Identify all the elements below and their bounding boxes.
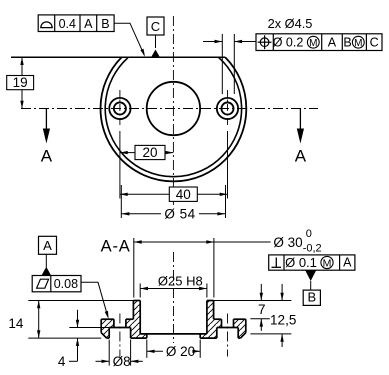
vertical centerline top view: [172, 16, 174, 205]
dimension 20 (basic): [120, 152, 173, 154]
svg-text:Ø25 H8: Ø25 H8: [158, 273, 203, 288]
svg-text:C: C: [151, 19, 160, 34]
bore D20 walls: [146, 334, 148, 338]
D4.5 dim arrows: [203, 41, 222, 43]
dimension 4 arrows: [77, 310, 79, 328]
svg-text:40: 40: [176, 187, 191, 202]
svg-text:M: M: [354, 38, 362, 49]
hatched right flange piece: [234, 319, 246, 338]
svg-text:Ø 54: Ø 54: [164, 207, 195, 222]
hub top extension right (for 7 / 12,5): [214, 300, 292, 302]
bore D25 walls: [139, 301, 141, 334]
step D25/D20: [140, 333, 207, 335]
position symbol: [260, 38, 269, 47]
svg-text:2x Ø4.5: 2x Ø4.5: [268, 16, 313, 31]
perpendicularity symbol: [275, 258, 277, 268]
counterbore step extension (for 4): [69, 327, 109, 329]
svg-text:Ø 0.1: Ø 0.1: [285, 255, 317, 270]
dimension D30 with tolerance: [133, 241, 213, 243]
svg-text:A: A: [328, 36, 337, 50]
flange top extension right (for 7): [250, 318, 269, 320]
svg-text:20: 20: [142, 145, 157, 160]
dimension 7: [260, 284, 262, 301]
svg-text:A: A: [84, 17, 93, 31]
svg-text:A-A: A-A: [101, 238, 131, 256]
svg-text:Ø 0.2: Ø 0.2: [273, 36, 304, 50]
right hole centerline (section): [227, 314, 229, 357]
hatched right hub/bore piece: [200, 301, 221, 339]
svg-text:Ø8: Ø8: [113, 354, 131, 369]
svg-text:A: A: [295, 147, 307, 166]
dimension D54 extension lines: [120, 185, 122, 218]
section arrow right: [299, 109, 301, 130]
D20 extension lines: [146, 340, 148, 358]
right counterbore step + walls: [217, 327, 238, 329]
svg-text:-0,2: -0,2: [303, 242, 322, 254]
profile FCF leader: [114, 23, 144, 55]
flatness symbol: [37, 279, 49, 288]
svg-text:A: A: [43, 238, 52, 253]
svg-text:M: M: [323, 257, 332, 269]
hub top extension line left (for 14): [28, 300, 140, 302]
svg-text:B: B: [343, 36, 351, 50]
left hole counterbore D8: [109, 98, 130, 119]
svg-text:C: C: [370, 36, 379, 50]
svg-text:14: 14: [8, 316, 24, 331]
svg-text:Ø 20: Ø 20: [166, 344, 195, 359]
section outline: left edge + chamfer: [100, 319, 102, 333]
perpendicularity FCF (0.1 M | A): [269, 255, 355, 270]
dimension D54: [122, 213, 161, 215]
step extension right (for 12,5): [250, 333, 291, 335]
flat top edge + left extension for dim 19: [11, 56, 225, 58]
bottom extension line left (for 14): [28, 337, 101, 339]
left hole vertical centerline: [119, 90, 121, 128]
outer circle D54 (flat-topped): [100, 57, 246, 181]
right hole vertical centerline: [227, 90, 229, 128]
right hole D4.5: [221, 102, 233, 114]
datum A flag: [39, 236, 57, 254]
flatness FCF (0.08): [32, 276, 81, 292]
D30 extension lines: [133, 238, 135, 298]
section arrow left: [45, 109, 47, 130]
dimension 19 line: [21, 57, 23, 108]
profile-of-surface FCF (0.4 A B): [38, 15, 114, 32]
D8 extension lines: [108, 340, 110, 366]
svg-text:0.08: 0.08: [54, 277, 78, 291]
flatness FCF leader: [81, 282, 108, 317]
dimension 14: [38, 301, 40, 339]
svg-text:B: B: [101, 17, 109, 31]
svg-text:A: A: [343, 256, 352, 270]
flange top surfaces: [101, 318, 114, 320]
profile symbol: [40, 22, 53, 28]
left counterbore step + walls: [109, 327, 130, 329]
svg-text:Ø 30: Ø 30: [273, 235, 302, 250]
horizontal centerline / section cutting line A-A: [21, 108, 318, 110]
section vertical centerline: [173, 252, 175, 343]
dimension D25 H8: [140, 288, 207, 290]
svg-text:0.4: 0.4: [59, 17, 76, 31]
hatched left flange piece: [101, 319, 114, 338]
svg-text:A: A: [41, 147, 53, 166]
dimension D8: [96, 360, 110, 362]
dimension 12,5: [281, 284, 283, 301]
dimension 19 box: [7, 76, 34, 90]
hub top surfaces: [133, 300, 140, 302]
dimension D20: [147, 350, 163, 352]
svg-text:M: M: [309, 38, 317, 49]
right hole D4.5 walls: [221, 319, 223, 327]
left hole D4.5: [114, 102, 126, 114]
svg-text:0: 0: [306, 228, 312, 240]
left hole centerline (section): [119, 314, 121, 357]
D4.5 extension lines: [221, 34, 223, 94]
left hole D4.5 walls: [113, 319, 115, 327]
datum C flag: [147, 17, 164, 35]
rim circle (inner edge): [105, 57, 241, 177]
right hole counterbore D8: [217, 98, 238, 119]
dimension 40 (basic): [120, 193, 228, 195]
hub outer walls: [132, 301, 134, 320]
svg-text:4: 4: [58, 354, 66, 369]
section outline: right edge + chamfer: [245, 319, 247, 333]
bottom face segments: [107, 337, 110, 339]
svg-text:12,5: 12,5: [270, 312, 296, 327]
position FCF (pos 0.2 M | A | B M | C): [256, 34, 382, 51]
svg-text:B: B: [307, 289, 316, 304]
datum B flag: [305, 270, 316, 281]
center bore circle D20: [147, 82, 200, 135]
svg-text:19: 19: [13, 75, 28, 90]
D25 extension lines: [139, 284, 141, 298]
hatched left hub/bore piece: [126, 301, 147, 339]
svg-text:7: 7: [258, 302, 266, 317]
